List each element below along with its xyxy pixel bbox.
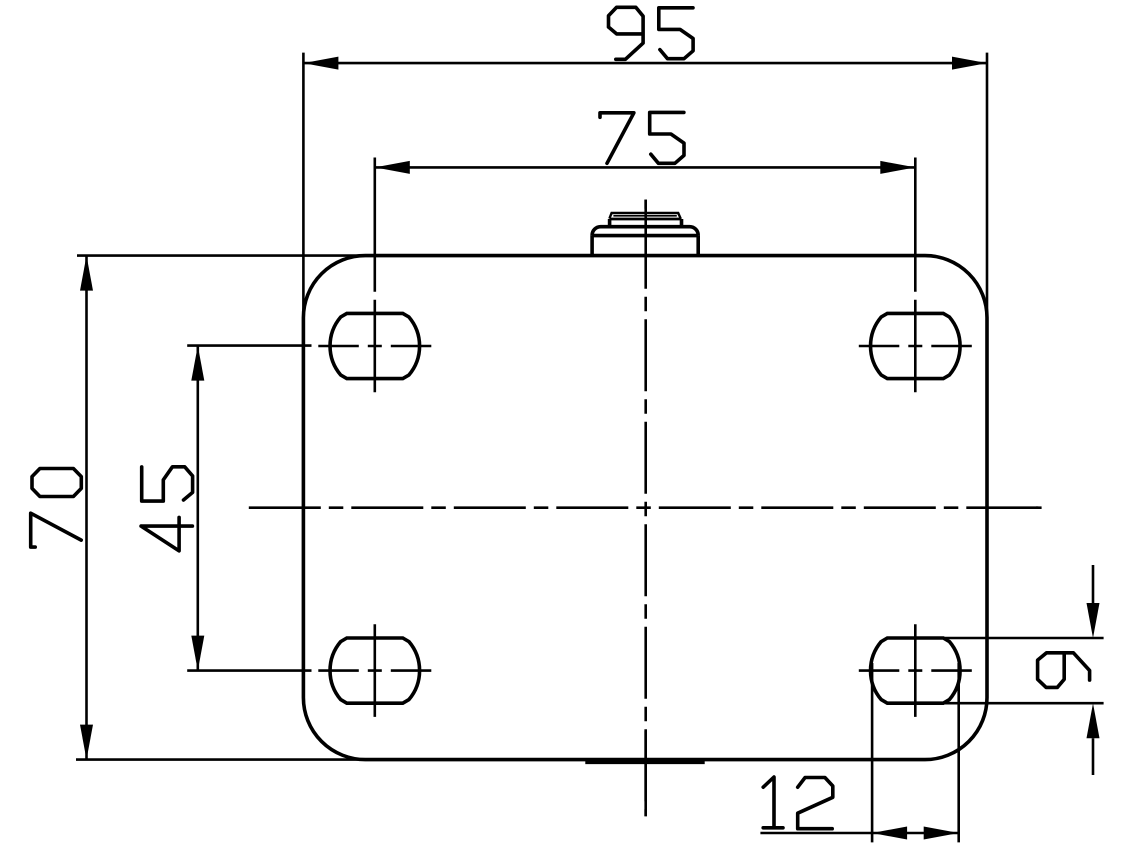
hole bottom-left <box>330 638 420 703</box>
main vertical centreline <box>644 200 647 817</box>
boss hidden edge at bottom centre <box>585 760 704 764</box>
main horizontal centreline <box>249 506 1042 509</box>
hole bottom-right <box>871 638 961 703</box>
dimension 75 (hole spacing, horizontal) <box>375 112 916 291</box>
hole top-right <box>871 313 961 378</box>
dimension 45 (hole spacing, vertical) <box>141 346 311 671</box>
dimension 70 (plate height, left) <box>31 256 366 760</box>
dimension 12 (hole width, bottom right) <box>760 663 958 842</box>
boss / stem (top centre, side profile) <box>592 213 698 256</box>
dimension 95 (plate width, top) <box>303 7 987 320</box>
hole centremark top-left <box>318 300 431 393</box>
hole centremark bottom-right <box>859 624 972 717</box>
plate outline (rounded mounting plate, top view) <box>303 256 987 760</box>
dimension 9 (hole flat height, right) <box>940 565 1104 775</box>
hole centremark top-right <box>859 300 972 393</box>
hole top-left <box>330 313 420 378</box>
hole centremark bottom-left <box>318 624 431 717</box>
